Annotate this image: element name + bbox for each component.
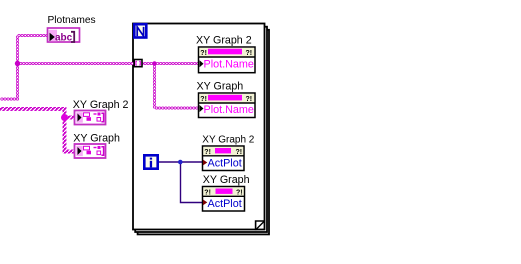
svg-text:XY Graph: XY Graph (203, 174, 250, 186)
svg-text:?!: ?! (236, 189, 243, 196)
svg-text:XY Graph 2: XY Graph 2 (73, 99, 129, 111)
svg-text:?!: ?! (236, 149, 243, 156)
svg-text:Plot.Name: Plot.Name (204, 58, 254, 70)
svg-text:abc: abc (55, 33, 73, 44)
svg-text:XY Graph: XY Graph (73, 132, 120, 144)
svg-text:XY Graph: XY Graph (197, 81, 244, 93)
svg-text:?!: ?! (204, 149, 211, 156)
svg-text:ActPlot: ActPlot (208, 198, 242, 210)
svg-text:ActPlot: ActPlot (208, 157, 242, 169)
svg-text:Plot.Name: Plot.Name (204, 104, 254, 116)
svg-text:?!: ?! (246, 96, 253, 103)
svg-text:XY Graph 2: XY Graph 2 (202, 135, 255, 146)
svg-text:XY Graph 2: XY Graph 2 (196, 34, 252, 46)
svg-text:?!: ?! (246, 50, 253, 57)
svg-text:?!: ?! (200, 96, 207, 103)
svg-text:?!: ?! (200, 50, 207, 57)
svg-text:?!: ?! (204, 189, 211, 196)
svg-text:Plotnames: Plotnames (48, 15, 96, 26)
